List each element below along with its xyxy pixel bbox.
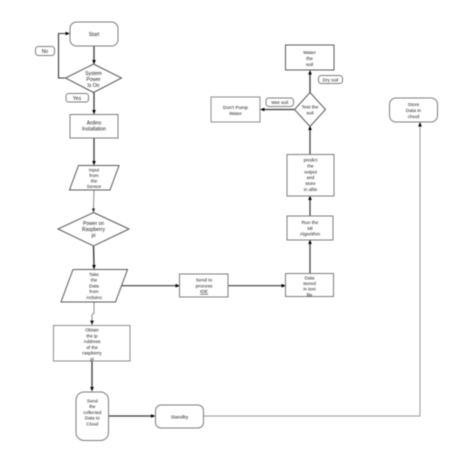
svg-text:of the: of the [86, 345, 98, 350]
svg-text:file: file [307, 292, 313, 297]
svg-text:the: the [91, 278, 98, 283]
terminator: Send the collected Data to Cloud [76, 392, 109, 441]
wire: Data stored up to Run the Ml Algorithm [308, 240, 312, 274]
process: Run the Ml Algorithm [287, 216, 333, 240]
wire: Run the Ml Algorithm up to predict box [308, 196, 312, 217]
wire: Obtain box to Send collected Data rounded box [90, 361, 94, 392]
io: Take the Data from Arduino (parallelogram) [61, 270, 128, 303]
svg-text:Send to: Send to [196, 278, 213, 284]
svg-text:Don't Pump: Don't Pump [223, 105, 248, 111]
svg-text:Arduino: Arduino [86, 295, 102, 300]
svg-text:Run the: Run the [302, 220, 319, 226]
svg-text:soil: soil [306, 62, 313, 68]
svg-text:Start: Start [89, 32, 100, 38]
svg-text:pi: pi [90, 357, 94, 362]
label: No [36, 47, 55, 56]
label: Yes [66, 94, 89, 103]
process: Data stored in text file [286, 274, 334, 298]
svg-text:Data: Data [89, 283, 99, 288]
wire: Input parallelogram to Power on Raspberry diamond [92, 190, 95, 213]
wire: Test diamond up to Water the soil [308, 70, 312, 93]
svg-text:store: store [305, 181, 316, 186]
svg-text:raspberry: raspberry [82, 351, 102, 356]
wire: No loop from diamond back to Start [59, 32, 71, 78]
svg-text:Wet soil: Wet soil [271, 100, 288, 106]
svg-text:Ml: Ml [307, 226, 312, 232]
svg-text:Store: Store [408, 102, 420, 108]
svg-text:Data to: Data to [85, 416, 100, 421]
svg-text:process: process [196, 283, 213, 289]
process: Send to process IDE [180, 274, 229, 297]
svg-text:pi: pi [92, 233, 96, 239]
svg-text:in text: in text [303, 287, 316, 292]
svg-text:Sensor: Sensor [87, 184, 102, 189]
process: Don't Pump Water [211, 97, 260, 122]
decision: System Power Is On [66, 64, 122, 93]
svg-text:collected: collected [83, 410, 102, 415]
svg-text:Water: Water [303, 50, 316, 56]
svg-text:from: from [89, 173, 98, 178]
svg-text:Test the: Test the [302, 105, 319, 111]
svg-text:predict: predict [304, 158, 319, 163]
svg-text:the: the [306, 56, 313, 62]
wire: Ardino Installation to Input parallelogram [92, 138, 96, 166]
svg-text:Standby: Standby [171, 414, 189, 420]
svg-text:No: No [42, 49, 49, 55]
svg-text:output: output [304, 169, 317, 174]
process: Obtain the ip Address of the raspberry pi [54, 326, 131, 362]
svg-text:stored: stored [303, 281, 316, 286]
svg-text:Cloud: Cloud [86, 421, 98, 426]
svg-text:Obtain: Obtain [85, 328, 99, 333]
label: Dry soil [319, 76, 343, 84]
wire: Standby right, up to Store Data in cloud [203, 122, 422, 416]
wire: Start to System Power diamond [92, 46, 96, 65]
svg-text:from: from [89, 289, 98, 294]
terminator: Standby [156, 405, 204, 428]
wire: Power diamond to Take Data parallelogram [92, 246, 96, 270]
svg-text:Data in: Data in [406, 108, 422, 114]
node: Start (rounded terminator) [70, 22, 118, 46]
process: Ardino Installation [70, 115, 118, 139]
wire: Test diamond left to Don't Pump Water [260, 108, 295, 112]
wire: diamond to Ardino Installation [92, 93, 96, 115]
svg-text:Take: Take [89, 272, 99, 277]
svg-text:Dry soil: Dry soil [323, 77, 339, 82]
svg-text:the: the [91, 179, 98, 184]
svg-text:the: the [89, 404, 96, 409]
svg-text:Water: Water [229, 111, 242, 117]
svg-text:in afile: in afile [304, 187, 318, 192]
svg-text:and: and [307, 175, 315, 180]
svg-text:IDE: IDE [200, 289, 208, 295]
svg-text:the: the [307, 163, 314, 168]
terminator: Store Data in cloud [390, 98, 438, 122]
decision: Power on Raspberry pi [58, 213, 129, 247]
svg-text:Yes: Yes [73, 96, 82, 102]
svg-text:the ip: the ip [86, 333, 98, 338]
svg-text:Address: Address [84, 339, 102, 344]
process: Water the soil [286, 45, 335, 70]
svg-text:Algorithm: Algorithm [300, 232, 320, 238]
svg-text:Data: Data [305, 275, 315, 280]
process: predict the output and store in afile [287, 155, 334, 197]
label: Wet soil [266, 98, 294, 107]
svg-text:Input: Input [89, 168, 100, 173]
svg-text:Installation: Installation [82, 127, 106, 133]
svg-text:Send: Send [87, 399, 98, 404]
wire: Send to process IDE to Data stored box [228, 284, 286, 288]
svg-text:Is On: Is On [88, 83, 100, 89]
svg-text:soil: soil [306, 111, 313, 117]
wire: Take Data parallelogram to Send to process IDE [121, 284, 180, 288]
svg-text:cloud: cloud [408, 114, 420, 120]
wire: Take Data parallelogram jog down to Obtain box [90, 302, 94, 325]
wire: predict box up to Test the soil diamond [308, 126, 312, 155]
decision: Test the soil [295, 93, 326, 127]
io: Input from the Sensor (parallelogram) [70, 166, 120, 191]
wire: Send collected Data to Standby [109, 414, 156, 418]
